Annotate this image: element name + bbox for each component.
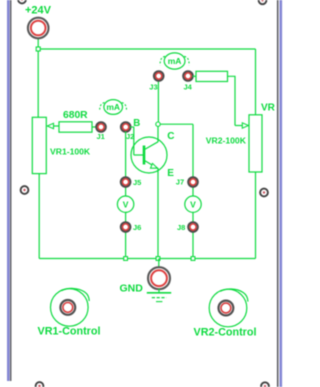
ammeter mA collector circuit: [160, 53, 189, 69]
svg-text:VR1-Control: VR1-Control: [38, 326, 101, 338]
terminal GND: [148, 267, 170, 289]
connector J3: [154, 71, 164, 81]
connector J8: [188, 222, 198, 232]
connector J2: [121, 122, 131, 132]
wire VR2 bottom to ground bus: [255, 172, 257, 259]
junction square bus VCE: [191, 257, 195, 261]
wire VCE branch down to bus: [192, 124, 194, 258]
svg-text:C: C: [167, 131, 174, 142]
svg-text:V: V: [190, 199, 196, 209]
wire bus to GND terminal: [158, 259, 160, 268]
svg-text:J7: J7: [176, 177, 184, 186]
wire base lead: [134, 154, 143, 156]
terminal +24V: [28, 18, 49, 39]
junction square at +24V node: [36, 47, 40, 51]
svg-text:J8: J8: [177, 223, 185, 232]
mounting hole top-right: [259, 0, 267, 4]
knob VR2-Control: [209, 289, 248, 327]
node collector junction: [156, 122, 160, 126]
svg-text:J2: J2: [126, 132, 134, 141]
mounting hole bottom-right: [261, 382, 269, 387]
wire VR1 bottom to ground bus: [38, 173, 40, 258]
resistor collector load: [196, 71, 228, 81]
potentiometer VR1 body: [32, 117, 46, 173]
wire +24V terminal to junction: [37, 39, 39, 48]
junction square bus VBE: [124, 257, 128, 261]
connector J6: [121, 222, 131, 232]
wire resistor to VR2 wiper riser: [228, 76, 236, 125]
svg-text:VR1-100K: VR1-100K: [50, 147, 91, 157]
connector J4: [183, 71, 193, 81]
wire J2 down to J5: [125, 132, 127, 259]
svg-text:VR2-Control: VR2-Control: [194, 327, 257, 339]
svg-text:J3: J3: [149, 82, 157, 91]
svg-text:680R: 680R: [63, 110, 88, 121]
wire J4 to collector resistor: [193, 75, 197, 77]
mounting hole mid-right: [260, 189, 268, 197]
svg-text:J5: J5: [133, 178, 141, 187]
wire VR2 wiper: [235, 125, 244, 127]
mounting hole mid-left: [21, 186, 29, 194]
wire node to VCE branch: [160, 123, 193, 125]
knob VR1-Control: [51, 288, 90, 326]
resistor 680R: [59, 122, 92, 132]
ammeter mA base circuit: [100, 100, 127, 115]
svg-text:E: E: [167, 168, 174, 179]
potentiometer VR2 body: [249, 115, 262, 172]
wire base riser: [133, 127, 135, 155]
wire VR1 wiper: [50, 125, 59, 127]
svg-text:GND: GND: [120, 282, 144, 294]
svg-text:VR: VR: [261, 102, 276, 113]
svg-text:+24V: +24V: [25, 5, 52, 17]
mounting hole top-left: [18, 0, 26, 3]
svg-text:mA: mA: [168, 56, 182, 66]
wire J2 to base riser: [130, 126, 134, 128]
wire 680R to J1: [92, 126, 97, 128]
connector J7: [188, 177, 198, 187]
voltmeter VCE: [185, 196, 201, 212]
svg-text:J1: J1: [97, 132, 105, 141]
svg-text:V: V: [123, 199, 129, 209]
wire J3 down to collector node: [157, 81, 159, 123]
connector J5: [121, 177, 131, 187]
svg-text:VR2-100K: VR2-100K: [206, 135, 247, 145]
wire junction down to VR1 top: [37, 51, 39, 118]
svg-text:J6: J6: [133, 223, 141, 232]
transistor Q1: [131, 126, 167, 173]
voltmeter VBE: [117, 196, 133, 212]
wire top bus horizontal: [38, 48, 255, 50]
wire right drop to VR2 top: [255, 49, 257, 115]
wire emitter down to bus: [157, 168, 159, 259]
VR1 wiper arrow: [47, 123, 53, 128]
VR2 wiper arrow: [242, 123, 248, 128]
wire ground bus horizontal: [39, 258, 255, 260]
ground symbol: [147, 289, 171, 302]
connector J1: [96, 122, 106, 132]
svg-text:mA: mA: [106, 102, 120, 112]
mounting hole bottom-left: [36, 382, 44, 387]
junction square bus emitter: [156, 257, 160, 261]
svg-text:J4: J4: [184, 82, 193, 91]
